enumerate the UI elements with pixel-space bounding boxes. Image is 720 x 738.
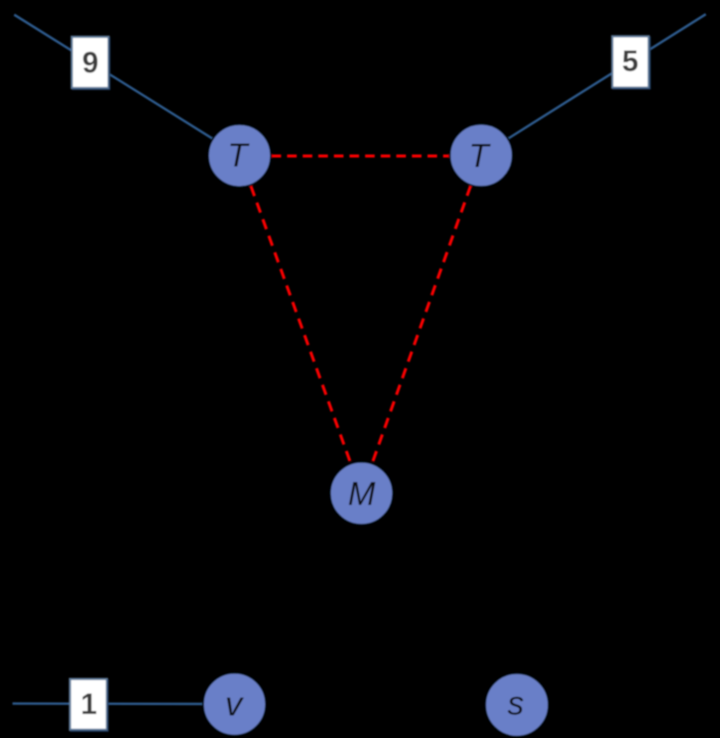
wire dashed edge T1 to M (240, 156, 362, 494)
node T2 (450, 124, 513, 187)
wire edge weight-9 to node T1 (14, 15, 240, 156)
weight box 5 (612, 36, 650, 89)
svg-text:T: T (469, 137, 492, 174)
node s (485, 673, 549, 737)
svg-text:s: s (508, 685, 525, 722)
svg-text:5: 5 (622, 45, 638, 78)
svg-text:T: T (227, 137, 250, 174)
node M (330, 462, 393, 525)
node v (203, 673, 266, 736)
weight box 1 (70, 679, 108, 731)
wire edge node T2 to weight-5 (481, 14, 705, 155)
weight box 9 (72, 37, 110, 90)
wire dashed edge T1 to T2 (272, 155, 451, 158)
wire dashed edge T2 to M (362, 155, 482, 493)
node T1 (208, 124, 271, 187)
svg-text:v: v (225, 685, 244, 723)
wire edge weight-1 to node v (13, 702, 235, 705)
svg-text:9: 9 (82, 46, 98, 79)
svg-text:M: M (348, 475, 376, 512)
svg-text:1: 1 (81, 688, 97, 721)
